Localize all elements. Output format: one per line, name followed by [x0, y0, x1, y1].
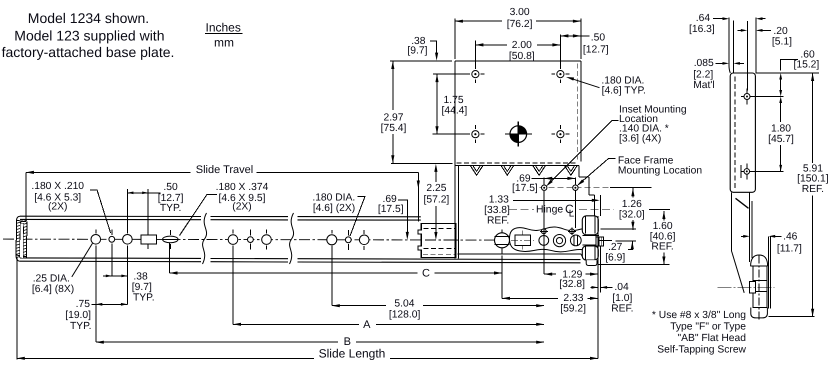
- svg-text:.180 X .210: .180 X .210: [31, 181, 84, 192]
- svg-text:.75: .75: [76, 299, 91, 310]
- svg-text:1.33: 1.33: [489, 195, 509, 206]
- svg-text:Mounting Location: Mounting Location: [618, 165, 702, 176]
- svg-text:Self-Tapping Screw: Self-Tapping Screw: [657, 345, 746, 356]
- svg-text:Slide Travel: Slide Travel: [196, 164, 253, 176]
- svg-text:C: C: [422, 268, 430, 280]
- svg-text:REF.: REF.: [651, 242, 673, 253]
- svg-text:[44.4]: [44.4]: [442, 105, 468, 116]
- svg-text:REF.: REF.: [802, 184, 824, 195]
- svg-text:.04: .04: [614, 282, 629, 293]
- svg-text:L: L: [569, 208, 575, 219]
- svg-text:[6.4] (8X): [6.4] (8X): [32, 284, 74, 295]
- svg-text:[45.7]: [45.7]: [768, 134, 794, 145]
- svg-text:.20: .20: [773, 26, 788, 37]
- svg-text:Hinge: Hinge: [536, 205, 563, 216]
- svg-text:[75.4]: [75.4]: [381, 123, 407, 134]
- svg-text:REF.: REF.: [611, 303, 633, 314]
- svg-text:[128.0]: [128.0]: [389, 310, 421, 321]
- svg-text:.50: .50: [591, 33, 606, 44]
- svg-text:.180 DIA.: .180 DIA.: [312, 192, 355, 203]
- svg-text:(2X): (2X): [232, 202, 251, 213]
- svg-text:(2X): (2X): [48, 202, 67, 213]
- svg-text:[17.5]: [17.5]: [378, 204, 404, 215]
- svg-text:[50.8]: [50.8]: [509, 51, 535, 62]
- svg-text:A: A: [363, 319, 371, 331]
- svg-text:[59.2]: [59.2]: [560, 303, 586, 314]
- svg-text:Mat'l: Mat'l: [693, 80, 714, 91]
- svg-text:[6.9]: [6.9]: [605, 253, 625, 264]
- svg-text:.46: .46: [783, 231, 798, 242]
- svg-text:[32.0]: [32.0]: [619, 209, 645, 220]
- svg-text:TYP.: TYP.: [160, 203, 182, 214]
- svg-text:Model 1234 shown.: Model 1234 shown.: [28, 10, 149, 26]
- svg-text:[4.6] TYP.: [4.6] TYP.: [602, 86, 646, 97]
- svg-text:[15.2]: [15.2]: [794, 60, 820, 71]
- svg-text:[17.5]: [17.5]: [512, 183, 538, 194]
- svg-text:[12.7]: [12.7]: [583, 44, 609, 55]
- svg-text:.180 X .374: .180 X .374: [216, 182, 269, 193]
- svg-text:Model 123 supplied with: Model 123 supplied with: [14, 28, 164, 44]
- svg-text:[4.6] (2X): [4.6] (2X): [313, 203, 355, 214]
- svg-text:* Use #8 x 3/8" Long: * Use #8 x 3/8" Long: [652, 310, 746, 321]
- svg-text:[3.6] (4X): [3.6] (4X): [619, 133, 661, 144]
- svg-text:mm: mm: [214, 36, 234, 50]
- svg-text:.38: .38: [133, 271, 148, 282]
- svg-text:[11.7]: [11.7]: [777, 243, 802, 254]
- svg-text:.085: .085: [694, 58, 714, 69]
- svg-text:Type "F" or Type: Type "F" or Type: [670, 322, 746, 333]
- svg-text:3.00: 3.00: [510, 7, 530, 18]
- svg-text:[76.2]: [76.2]: [507, 19, 533, 30]
- svg-text:[16.3]: [16.3]: [689, 24, 715, 35]
- svg-text:2.00: 2.00: [512, 40, 532, 51]
- svg-text:2.25: 2.25: [426, 183, 446, 194]
- svg-text:[19.0]: [19.0]: [65, 310, 91, 321]
- svg-text:[5.1]: [5.1]: [772, 37, 792, 48]
- svg-text:Slide Length: Slide Length: [319, 346, 386, 360]
- svg-text:Inches: Inches: [206, 21, 241, 35]
- svg-text:5.04: 5.04: [394, 298, 414, 309]
- svg-text:.27: .27: [608, 242, 623, 253]
- svg-text:TYP.: TYP.: [70, 321, 92, 332]
- svg-text:"AB" Flat Head: "AB" Flat Head: [677, 333, 746, 344]
- svg-text:[57.2]: [57.2]: [424, 195, 450, 206]
- svg-text:[9.7]: [9.7]: [132, 282, 152, 293]
- svg-text:.50: .50: [163, 182, 178, 193]
- svg-text:[9.7]: [9.7]: [407, 46, 427, 57]
- svg-text:TYP.: TYP.: [133, 292, 155, 303]
- svg-text:[32.8]: [32.8]: [559, 279, 585, 290]
- svg-text:.64: .64: [696, 13, 711, 24]
- svg-text:factory-attached base plate.: factory-attached base plate.: [2, 44, 175, 60]
- svg-text:[2.2]: [2.2]: [693, 70, 713, 81]
- svg-text:REF.: REF.: [487, 215, 509, 226]
